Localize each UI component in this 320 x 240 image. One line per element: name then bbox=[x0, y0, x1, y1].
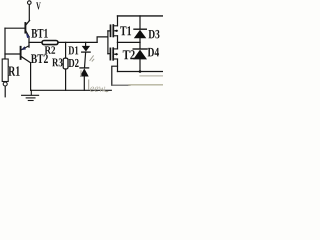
wire T2 source down bbox=[117, 59, 119, 72]
wire T1 gate stub bbox=[108, 30, 110, 32]
wire gate feed horizontal bbox=[29, 41, 97, 43]
transistor BT2 bbox=[21, 46, 31, 63]
diode D3 bbox=[134, 16, 147, 43]
wire source return rail faded bbox=[129, 84, 163, 86]
wire R3 bottom bbox=[65, 69, 67, 90]
transistor BT1 emitter arrow bbox=[26, 33, 30, 38]
diode D4 bbox=[133, 42, 147, 71]
label T2 bbox=[123, 50, 135, 59]
transistor BT2 emitter arrow bbox=[21, 46, 26, 50]
label T1 bbox=[120, 26, 131, 35]
diode D1 bbox=[82, 42, 90, 68]
terminal input circle bbox=[3, 82, 7, 86]
wire BT1 base bbox=[5, 27, 25, 29]
watermark bbox=[90, 87, 105, 92]
scan artifacts grey bbox=[81, 55, 94, 89]
terminal V circle bbox=[28, 1, 32, 5]
label D3 bbox=[148, 30, 159, 39]
label R2 bbox=[45, 46, 55, 53]
wire source jog left bbox=[112, 66, 118, 85]
wire BT2 collector down bbox=[30, 63, 32, 91]
wire bottom rail bbox=[118, 71, 164, 73]
transistor T2 bbox=[110, 48, 117, 60]
wire V stem bbox=[28, 5, 30, 21]
label R3 bbox=[52, 58, 62, 66]
transistor T1 bbox=[111, 25, 118, 37]
wire jog up bbox=[97, 37, 108, 43]
label V bbox=[36, 2, 41, 9]
wire left rail bbox=[4, 28, 6, 59]
diode D2 bbox=[80, 68, 89, 90]
wire gate bus vertical bbox=[107, 31, 109, 54]
wire T2 drain bbox=[117, 42, 119, 49]
label BT2 bbox=[31, 54, 48, 63]
resistor R1 bbox=[2, 59, 8, 82]
wire input stem bbox=[4, 86, 6, 97]
label BT1 bbox=[31, 29, 47, 38]
resistor R3 bbox=[63, 58, 68, 69]
wire T1 drain bbox=[117, 16, 119, 26]
wire ground rail bbox=[31, 89, 112, 91]
node junction dot D4-rail bbox=[139, 70, 142, 73]
wire top rail bbox=[118, 15, 164, 17]
wire mid rail bbox=[118, 41, 141, 43]
label D2 bbox=[69, 59, 79, 67]
resistor R2 bbox=[42, 41, 58, 45]
wire grey line bbox=[140, 75, 163, 77]
ground bbox=[22, 90, 39, 100]
wire T2 gate stub bbox=[108, 53, 110, 55]
label D1 bbox=[68, 46, 78, 54]
wire source return rail bbox=[112, 84, 130, 86]
label D4 bbox=[148, 48, 159, 57]
wire BT2 base bbox=[5, 53, 20, 55]
wire T1 source bbox=[117, 36, 119, 43]
label R1 bbox=[8, 66, 19, 75]
transistor BT1 bbox=[25, 20, 29, 36]
wire R3 drop bbox=[65, 42, 67, 58]
node emitter junction vertical bbox=[28, 37, 30, 47]
